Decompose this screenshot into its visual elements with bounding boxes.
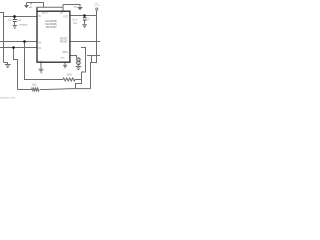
svg-text:GND: GND xyxy=(60,57,65,59)
svg-text:COH S: COH S xyxy=(94,5,100,7)
svg-text:RESET: RESET xyxy=(60,39,68,41)
svg-text:2kΩ: 2kΩ xyxy=(32,85,36,87)
svg-text:1MΩ: 1MΩ xyxy=(67,75,72,77)
svg-text:DB: DB xyxy=(60,13,64,15)
svg-text:1µF: 1µF xyxy=(87,19,90,21)
svg-text:OUT: OUT xyxy=(63,16,68,18)
svg-text:GND: GND xyxy=(73,7,78,9)
svg-text:SELR: SELR xyxy=(42,12,48,14)
svg-text:1µF: 1µF xyxy=(73,23,78,25)
svg-text:MAX6367: MAX6367 xyxy=(46,26,58,29)
svg-text:1µF: 1µF xyxy=(17,20,22,22)
svg-text:IN: IN xyxy=(38,16,41,18)
svg-text:CIN: CIN xyxy=(8,20,12,22)
svg-text:1k: 1k xyxy=(41,73,43,75)
svg-text:MAX6365 ONLY: MAX6365 ONLY xyxy=(0,96,16,99)
svg-text:RESET: RESET xyxy=(60,42,68,44)
svg-text:MR: MR xyxy=(29,7,33,9)
svg-text:WDO: WDO xyxy=(62,52,68,54)
svg-text:CERAMIC: CERAMIC xyxy=(19,23,29,26)
svg-text:COUT: COUT xyxy=(73,20,78,22)
svg-text:GND: GND xyxy=(39,61,44,63)
